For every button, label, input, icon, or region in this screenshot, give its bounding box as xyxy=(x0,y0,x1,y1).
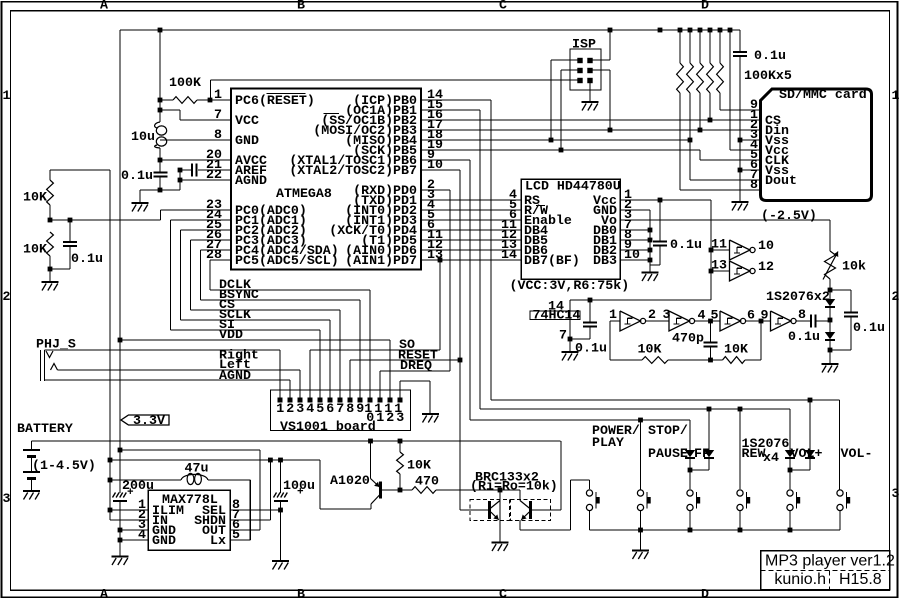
junction dot (110,460) xyxy=(108,458,113,463)
wire RESET to ISP y=80 xyxy=(210,80,212,100)
wire PC4 to BSYNC xyxy=(201,249,232,251)
junction dot (710.5,360) xyxy=(708,358,713,363)
IC U1 ATMEGA8 box xyxy=(231,89,421,270)
svg-text:C: C xyxy=(499,586,507,600)
overline SS xyxy=(324,113,340,115)
junction dot (570,339) xyxy=(568,337,573,342)
svg-text:10u: 10u xyxy=(131,129,155,144)
inductor 10u xyxy=(155,122,160,128)
junction dot (590,300) xyxy=(588,298,593,303)
pushbutton VOL- xyxy=(837,490,843,496)
svg-text:8: 8 xyxy=(214,127,222,142)
capacitor 0.1u 74HC14 xyxy=(589,300,591,323)
wire ISP SCK branch x=561 xyxy=(561,69,580,71)
connector VS1001 board box xyxy=(271,390,411,431)
junction dot (700,130) xyxy=(698,128,703,133)
svg-text:13: 13 xyxy=(711,258,727,273)
wire ISP MISO branch x=551 xyxy=(551,59,580,61)
dashed box BC133 right xyxy=(511,500,551,521)
inverter U2C xyxy=(720,311,741,331)
title block separator dashed xyxy=(761,570,890,572)
resistor 10K lower divider xyxy=(47,232,54,256)
junction dot (160,110) xyxy=(158,108,163,113)
wire SD Vss stubs xyxy=(740,139,761,141)
wire AGND pin22 xyxy=(180,179,231,181)
svg-text:PAUSE: PAUSE xyxy=(648,446,688,461)
junction dot (210,100) xyxy=(208,98,213,103)
svg-text:7: 7 xyxy=(559,328,567,343)
wire VCC pin7 route xyxy=(160,109,180,111)
svg-text:AGND: AGND xyxy=(219,368,251,383)
junction dot (690,140) xyxy=(688,138,693,143)
wire gate B input xyxy=(711,270,730,272)
svg-text:14: 14 xyxy=(501,247,517,262)
wire x=480 PB1 bus to VOL+ rail xyxy=(421,109,480,111)
svg-text:47u: 47u xyxy=(185,461,209,476)
svg-text:0.1u: 0.1u xyxy=(853,320,885,335)
svg-text:1: 1 xyxy=(214,87,222,102)
svg-text:x4: x4 xyxy=(763,450,779,465)
svg-text:D: D xyxy=(701,586,709,600)
svg-text:1: 1 xyxy=(276,401,284,416)
junction dot (710.5,321) xyxy=(708,319,713,324)
svg-text:0.1u: 0.1u xyxy=(754,48,786,63)
wire inverter1 input xyxy=(610,320,620,322)
svg-text:1: 1 xyxy=(3,88,11,103)
svg-text:100Kx5: 100Kx5 xyxy=(744,68,792,83)
svg-text:(VCC:3V,R6:75k): (VCC:3V,R6:75k) xyxy=(510,278,630,293)
wire buttons gnd stem xyxy=(640,530,642,550)
wire Right y=350 xyxy=(45,349,281,351)
junction dot (160,160) xyxy=(158,158,163,163)
IC LCD HD44780U box xyxy=(521,179,620,279)
junction dot (711,250) xyxy=(709,248,714,253)
wire SEL net y=460 xyxy=(110,459,320,461)
svg-text:A: A xyxy=(100,0,108,13)
svg-text:100K: 100K xyxy=(169,75,201,90)
capacitor 0.1u shunt right xyxy=(830,289,851,291)
wire gnd stem divider xyxy=(49,269,51,281)
ground buttons xyxy=(632,549,649,551)
svg-text:10k: 10k xyxy=(842,259,866,274)
wire x=711 Vcc to gates xyxy=(710,200,712,300)
wire pullup x=690 to SD pin7 xyxy=(689,93,691,180)
svg-text:2: 2 xyxy=(286,401,294,416)
junction dot (50,269) xyxy=(48,267,53,272)
svg-text:10K: 10K xyxy=(724,342,748,357)
wire POWER top stub xyxy=(589,480,591,489)
ground VS1001 xyxy=(422,413,439,415)
wire inv1 out xyxy=(646,320,669,322)
diode D1 1S2076 xyxy=(825,299,835,306)
ground 74HC14 xyxy=(569,339,571,352)
junction dot (180,180) xyxy=(178,178,183,183)
junction dot (830,320) xyxy=(828,318,833,323)
ground LCD xyxy=(642,271,659,273)
wire divider bottom xyxy=(50,268,70,270)
wire OUT stub xyxy=(230,529,260,531)
junction dot (120,450) xyxy=(118,448,123,453)
wire BC133 gnd stem xyxy=(499,521,501,542)
junction dot (551,140) xyxy=(549,138,554,143)
svg-text:6: 6 xyxy=(326,401,334,416)
wire pot to diode stack xyxy=(829,279,831,299)
resistor 10K osc A xyxy=(642,357,668,364)
svg-text:A: A xyxy=(100,586,108,600)
svg-text:10: 10 xyxy=(758,238,774,253)
wires PD1-PD7 to LCD xyxy=(421,199,521,201)
svg-text:H15.8: H15.8 xyxy=(839,571,882,588)
svg-text:0.1u: 0.1u xyxy=(670,237,702,252)
resistor 10K osc B xyxy=(723,357,746,364)
flag 3.3V xyxy=(121,415,169,425)
svg-text:3: 3 xyxy=(892,486,900,501)
transistor Q3 BC133 right xyxy=(529,501,532,519)
wire PC2 to SCLK xyxy=(181,229,232,231)
wire x=491 PB0 bus to VOL- rail xyxy=(421,99,491,101)
svg-text:3.3V: 3.3V xyxy=(133,413,165,428)
junction dot (740,409) xyxy=(738,407,743,412)
junction dot (561,150) xyxy=(559,148,564,153)
svg-text:BATTERY: BATTERY xyxy=(17,421,73,436)
wire PB3 to SD Din xyxy=(421,129,761,131)
wire RESET y=360 xyxy=(350,359,460,361)
wire gnd stem x=140 xyxy=(139,190,141,202)
diode D6 1S2076 xyxy=(805,450,815,457)
svg-text:9: 9 xyxy=(356,401,364,416)
wire PC3 to CS xyxy=(191,239,232,241)
junction dot (280.5,510) xyxy=(278,508,283,513)
VS1001 pin squares xyxy=(278,398,283,403)
junction dot (270.4,460) xyxy=(268,458,273,463)
capacitor 0.1u LCD xyxy=(659,200,661,242)
capacitor 0.1u divider xyxy=(69,220,71,242)
wire Left y=370 xyxy=(58,369,301,371)
inductor 47u xyxy=(181,474,208,480)
wire FF diode A xyxy=(689,420,691,450)
wire BC133 right emitter to rail xyxy=(519,520,521,530)
junction dot (710,120) xyxy=(708,118,713,123)
transistor Q1 A1020 xyxy=(379,482,382,499)
svg-text:PLAY: PLAY xyxy=(592,435,624,450)
wire A1020 base xyxy=(382,489,400,491)
wire AVCC pin20 xyxy=(160,159,231,161)
svg-text:DB3: DB3 xyxy=(593,253,617,268)
junction dot (110,510) xyxy=(108,508,113,513)
svg-text:PC5(ADC5/SCL): PC5(ADC5/SCL) xyxy=(235,253,339,268)
svg-text:10K: 10K xyxy=(23,242,47,257)
wire ILIM stub xyxy=(110,509,148,511)
svg-text:6: 6 xyxy=(747,308,755,323)
svg-text:Lx: Lx xyxy=(210,533,226,548)
svg-text:B: B xyxy=(297,586,305,600)
svg-text:2: 2 xyxy=(892,289,900,304)
svg-text:2: 2 xyxy=(648,307,656,322)
svg-text:14: 14 xyxy=(548,299,564,314)
resistor 470 xyxy=(400,489,412,491)
svg-text:VOL-: VOL- xyxy=(841,446,873,461)
wire PC5 to DCLK xyxy=(210,259,231,261)
wire GND pin8 xyxy=(160,139,231,141)
svg-text:1: 1 xyxy=(376,410,384,425)
svg-text:(1-4.5V): (1-4.5V) xyxy=(32,458,96,473)
wire GND stubs xyxy=(120,529,148,531)
wire ISP gnd stem xyxy=(589,80,591,101)
svg-text:kunio.h: kunio.h xyxy=(774,571,826,588)
svg-text:10K: 10K xyxy=(23,190,47,205)
svg-text:8: 8 xyxy=(750,177,758,192)
wire buttons bottom rail xyxy=(590,529,841,531)
capacitor 0.1u after inv4 xyxy=(797,320,812,322)
junction dot (370.5,441) xyxy=(368,439,373,444)
wire Lx stub xyxy=(230,539,250,541)
svg-text:MP3 player ver1.2: MP3 player ver1.2 xyxy=(765,553,895,570)
svg-text:12: 12 xyxy=(758,259,774,274)
junction dots on VCC rail xyxy=(158,28,163,33)
svg-text:0.1u: 0.1u xyxy=(788,329,820,344)
wire BC133 right collector xyxy=(519,490,521,501)
svg-text:VCC: VCC xyxy=(235,113,259,128)
junction dot (180,170) xyxy=(178,168,183,173)
IC U3 MAX778L box xyxy=(148,490,230,550)
wire REW stub xyxy=(739,409,741,489)
wire x=450 PD0 bus xyxy=(421,189,450,191)
junction dot (70,220) xyxy=(68,218,73,223)
pushbutton REW xyxy=(737,490,743,496)
svg-text:GND: GND xyxy=(152,533,176,548)
svg-text:DB7(BF): DB7(BF) xyxy=(524,253,580,268)
pushbutton FF xyxy=(687,490,693,496)
wire SEL to A1020 collector xyxy=(319,460,321,509)
wire emitter rail to POWER top xyxy=(570,480,572,530)
svg-text:1: 1 xyxy=(892,88,900,103)
connector ISP box xyxy=(570,49,601,90)
svg-text:470: 470 xyxy=(415,474,439,489)
variable resistor 10k xyxy=(825,251,836,279)
junction dot (660,200) xyxy=(658,198,663,203)
wire PB5 SCK y=150 with jog to CLK xyxy=(421,149,700,151)
wire VCC rail y=30 xyxy=(120,29,740,31)
junction dot (810,400) xyxy=(808,398,813,403)
wire 3.3V to OUT y=450 xyxy=(120,449,260,451)
wire inv3 out xyxy=(746,320,771,322)
diode D2 1S2076 xyxy=(825,332,835,339)
wire x=160 vertical VCC branch xyxy=(159,30,161,122)
wire IN stub xyxy=(110,519,148,521)
resistor bank 100Kx5 xyxy=(679,30,681,63)
wire FF diode B xyxy=(708,409,710,450)
junction dot (440,260) xyxy=(438,258,443,263)
diode D4 1S2076 xyxy=(704,450,714,457)
junction dot (690,470) xyxy=(688,468,693,473)
svg-text:(AIN1)PD7: (AIN1)PD7 xyxy=(345,253,417,268)
wire inductor to Lx xyxy=(208,479,250,481)
svg-text:B: B xyxy=(297,0,305,13)
wire SD Vcc pin4 xyxy=(729,30,731,150)
wire pullup x=720 to SD pin9 xyxy=(719,93,721,110)
svg-text:(Ri=Ro=10k): (Ri=Ro=10k) xyxy=(470,479,558,494)
svg-text:VS1001 board: VS1001 board xyxy=(280,419,376,434)
svg-text:7: 7 xyxy=(214,107,222,122)
junction dot (830,290) xyxy=(828,288,833,293)
pushbutton POWER/PLAY xyxy=(586,490,592,496)
wire battery to inductor y=480 xyxy=(110,479,181,481)
junction dot (761,321) xyxy=(759,319,764,324)
ISP pin squares xyxy=(577,58,582,63)
svg-text:Dout: Dout xyxy=(765,173,797,188)
inverter gate 11-10 xyxy=(730,240,751,260)
junction dot (120,340) xyxy=(118,338,123,343)
wire ISP pin to rail xyxy=(590,59,610,61)
wire pullup x=700 to Din xyxy=(699,93,701,130)
dashed box BC133 left xyxy=(470,500,510,521)
overline W of R/W xyxy=(536,205,545,207)
wire LCD GND to gnd bundle xyxy=(620,209,650,211)
svg-text:D: D xyxy=(701,0,709,13)
svg-text:ATMEGA8: ATMEGA8 xyxy=(276,186,332,201)
junction dot (790,470) xyxy=(788,468,793,473)
svg-text:1S2076x2: 1S2076x2 xyxy=(766,289,830,304)
wire x=470 PB6 bus to PAUSE rail xyxy=(421,159,470,161)
svg-text:C: C xyxy=(499,0,507,13)
junction dot (160,100) xyxy=(158,98,163,103)
wire battery+ y=441 xyxy=(32,440,561,442)
ground battery xyxy=(23,490,40,492)
diode D5 1S2076 xyxy=(785,450,795,457)
capacitor 470p xyxy=(710,321,712,343)
wire SHDN stub xyxy=(230,519,270,521)
title block box xyxy=(761,551,890,590)
wire x=460 PB7 bus to BC133 base xyxy=(421,169,460,171)
junction dot (400,441) xyxy=(398,439,403,444)
capacitor 200u electrolytic xyxy=(113,493,116,498)
svg-text:SD/MMC card: SD/MMC card xyxy=(779,87,867,102)
junction dot (711,271) xyxy=(709,269,714,274)
wire VS1001 pin13 to gnd xyxy=(399,381,401,398)
svg-text:11: 11 xyxy=(711,237,727,252)
connector PHJ_S jack xyxy=(40,350,42,381)
ground SD xyxy=(732,201,749,203)
inverter gate 13-12 xyxy=(730,261,751,281)
wire PC1 to SI xyxy=(171,219,232,221)
junction dot (280.5,460) xyxy=(278,458,283,463)
svg-text:2: 2 xyxy=(3,289,11,304)
wire PC6 pin1 stub xyxy=(210,99,231,101)
ground (analog) xyxy=(132,202,149,204)
wire AGND y=380 xyxy=(45,379,291,381)
svg-text:1S2076: 1S2076 xyxy=(742,436,790,451)
wire SO y=350 xyxy=(310,349,440,351)
wire divider top y=170 xyxy=(50,169,110,171)
junction dot (830,350) xyxy=(828,348,833,353)
wire LCD Vcc y=200 xyxy=(620,199,711,201)
wire SHDN drop x=270.4 xyxy=(269,460,271,520)
svg-text:2: 2 xyxy=(386,410,394,425)
capacitor 0.1u (AREF) xyxy=(198,169,231,171)
svg-text:1: 1 xyxy=(609,307,617,322)
svg-text:100u: 100u xyxy=(283,478,315,493)
wire inv2 out xyxy=(695,320,720,322)
resistor 10K upper divider xyxy=(49,170,51,180)
capacitor 0.1u SD xyxy=(739,30,741,52)
wire ISP pin to MOSI xyxy=(590,69,610,71)
svg-text:10K: 10K xyxy=(638,342,662,357)
transistor Q2 BC133 left xyxy=(488,501,491,519)
overline RESET xyxy=(267,93,306,95)
wire PB4 MISO y=140 xyxy=(421,139,690,141)
title block divider dashed xyxy=(829,571,831,590)
inverter U2B xyxy=(669,311,690,331)
resistor 10K base xyxy=(399,441,401,452)
wire battery sense vertical x=110 xyxy=(109,170,111,520)
junction dot (110,480) xyxy=(108,478,113,483)
inverter U2A xyxy=(620,311,641,331)
wire PB2 to SD CS xyxy=(421,119,761,121)
svg-text:10K: 10K xyxy=(407,458,431,473)
svg-text:A1020: A1020 xyxy=(330,473,370,488)
IC 74HC14 label box xyxy=(530,311,580,320)
connector SD/MMC card outline xyxy=(761,89,872,201)
svg-text:8: 8 xyxy=(346,401,354,416)
wire SEL stub xyxy=(230,509,281,511)
ground ISP xyxy=(582,101,599,103)
svg-text:22: 22 xyxy=(206,167,222,182)
svg-text:0.1u: 0.1u xyxy=(575,341,607,356)
wire between diodes xyxy=(829,307,831,332)
resistor R 100K (RESET pullup) xyxy=(160,99,173,101)
wire Vo corner to pot xyxy=(829,220,831,251)
capacitor 100u electrolytic xyxy=(280,460,282,493)
svg-text:3: 3 xyxy=(296,401,304,416)
svg-text:7: 7 xyxy=(336,401,344,416)
wire LCD Vo y=220 xyxy=(620,219,830,221)
svg-text:3: 3 xyxy=(3,491,11,506)
junction dot (709,409) xyxy=(707,407,712,412)
wire feedback y=360 xyxy=(610,359,642,361)
junction dot (400,490) xyxy=(398,488,403,493)
junction dot (740,140) xyxy=(738,138,743,143)
svg-text:DREQ: DREQ xyxy=(400,358,432,373)
ground divider xyxy=(42,281,59,283)
wire 74HC14 Vcc y=300 xyxy=(570,299,711,301)
ground diode stack xyxy=(822,363,839,365)
ground 200u stem xyxy=(112,555,129,557)
ground BC133 xyxy=(492,541,509,543)
wire analog gnd y=190 xyxy=(140,189,180,191)
svg-text:4: 4 xyxy=(306,401,314,416)
svg-text:470p: 470p xyxy=(672,331,704,346)
wire VOL+ diode D xyxy=(809,400,811,450)
svg-text:0.1u: 0.1u xyxy=(121,168,153,183)
pushbutton STOP/PAUSE xyxy=(637,490,643,496)
svg-text:(XTAL2/TOSC2)PB7: (XTAL2/TOSC2)PB7 xyxy=(289,163,417,178)
wire divider mid to PC0 xyxy=(50,219,161,221)
wire pullup x=710 to CS xyxy=(709,93,711,120)
capacitor 0.1u (AVCC) xyxy=(154,171,168,173)
wire DREQ y=371 xyxy=(380,370,450,372)
svg-text:(-2.5V): (-2.5V) xyxy=(761,208,817,223)
wire 3.3V vertical x=120 xyxy=(119,30,121,493)
junction dot (120,530) xyxy=(118,528,123,533)
svg-text:8: 8 xyxy=(798,307,806,322)
wire BC133 right base to battery xyxy=(560,441,562,510)
junction dot (610,130) xyxy=(608,128,613,133)
wire VDD y=340 xyxy=(120,339,390,341)
wire diode stack to gnd xyxy=(829,340,831,364)
pushbutton VOL+ xyxy=(787,490,793,496)
junction dot (740,170) xyxy=(738,168,743,173)
svg-text:LCD HD44780U: LCD HD44780U xyxy=(525,179,621,194)
